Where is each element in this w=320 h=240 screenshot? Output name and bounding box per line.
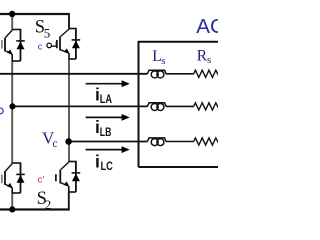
transistor/IGBT U3 (lower switch, leg 1) with antiparallel diode D3	[2, 163, 25, 193]
junction node C (leg2 / phase C)	[65, 138, 72, 145]
svg-text:c: c	[52, 138, 57, 150]
current arrow iLB	[86, 116, 123, 118]
svg-text:c’: c’	[38, 174, 45, 185]
inductor Ls phase C	[147, 138, 166, 146]
clipped blue label at left edge (node b)	[0, 108, 3, 114]
transistor/IGBT U2 (upper switch S5, leg 2) with antiparallel diode D2	[47, 29, 80, 60]
wire: leg1 mid segment (U1 emitter to U3 collector through node B)	[11, 60, 13, 164]
inductor Ls phase A	[147, 70, 166, 78]
gate lead hook of U2	[52, 42, 57, 47]
current arrow iLA	[86, 83, 123, 85]
svg-text:LC: LC	[101, 161, 113, 173]
transistor/IGBT U1 (upper switch, leg 1) with antiparallel diode D1	[2, 30, 25, 62]
phase C wire	[69, 141, 148, 143]
svg-text:LB: LB	[100, 127, 112, 139]
resistor Rs phase C	[194, 138, 219, 145]
svg-text:5: 5	[44, 26, 51, 41]
svg-text:s: s	[161, 55, 165, 67]
phase A wire	[0, 73, 148, 75]
top DC rail wire	[0, 13, 70, 15]
junction node B (leg1 / phase B)	[9, 103, 15, 109]
svg-text:i: i	[95, 151, 100, 171]
current arrow iLC	[86, 149, 123, 151]
transistor/IGBT U4 (lower switch S2, leg 2) with antiparallel diode D4	[56, 162, 80, 193]
resistor Rs phase B	[194, 103, 219, 110]
wire: top rail corner down to S5b collector	[68, 13, 70, 29]
svg-text:2: 2	[45, 197, 52, 212]
wire: leg1 upper stub (rail to U1)	[11, 14, 13, 30]
resistor Rs phase A	[194, 70, 219, 77]
svg-text:AC: AC	[196, 15, 218, 38]
inductor Ls phase B	[147, 103, 166, 111]
svg-text:LA: LA	[100, 94, 112, 106]
AC load box outline	[139, 42, 221, 167]
wire: bottom rail corner up to S2b emitter	[68, 192, 70, 210]
bottom DC rail wire	[0, 208, 70, 210]
gate terminal circle of U2	[47, 43, 52, 48]
wire: leg1 lower stub (U3 emitter to bottom rail)	[11, 192, 13, 209]
phase B wire	[13, 105, 148, 107]
svg-text:s: s	[207, 54, 211, 66]
wire: leg2 mid segment (U2 emitter to U4 collector through node C)	[68, 58, 70, 162]
junction node on top rail (leg1)	[9, 11, 15, 17]
junction node on bottom rail (leg1)	[9, 206, 15, 212]
svg-text:c: c	[38, 42, 43, 53]
